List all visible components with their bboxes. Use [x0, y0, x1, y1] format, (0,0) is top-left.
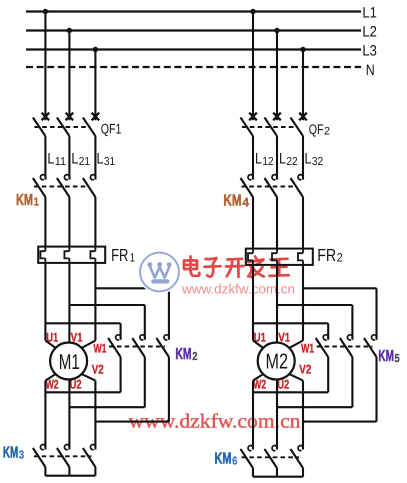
svg-text:L: L [305, 150, 312, 167]
svg-text:FR: FR [317, 245, 336, 265]
svg-text:KM: KM [16, 192, 33, 209]
svg-text:L: L [97, 150, 104, 167]
svg-text:6: 6 [232, 455, 237, 467]
svg-text:21: 21 [79, 156, 90, 168]
svg-text:KM: KM [378, 348, 394, 365]
svg-text:22: 22 [286, 156, 297, 168]
svg-text:2: 2 [324, 126, 330, 138]
svg-text:32: 32 [312, 156, 323, 168]
svg-text:L: L [47, 150, 54, 167]
svg-text:L2: L2 [362, 24, 377, 41]
svg-text:5: 5 [395, 353, 401, 365]
svg-text:V2: V2 [92, 363, 104, 377]
svg-text:KM: KM [215, 451, 232, 468]
svg-text:W1: W1 [94, 342, 107, 356]
svg-text:N: N [366, 62, 375, 79]
svg-text:KM: KM [3, 445, 18, 462]
svg-text:2: 2 [192, 351, 197, 363]
svg-text:QF1: QF1 [101, 121, 122, 137]
svg-text:KM: KM [175, 346, 191, 363]
svg-text:2: 2 [337, 251, 343, 265]
svg-text:W1: W1 [301, 342, 314, 356]
svg-text:L: L [255, 150, 262, 167]
svg-text:12: 12 [262, 156, 273, 168]
svg-text:V2: V2 [299, 363, 311, 377]
svg-text:L3: L3 [362, 43, 377, 60]
svg-text:11: 11 [55, 156, 66, 168]
svg-text:L: L [279, 150, 286, 167]
svg-text:1: 1 [130, 250, 136, 264]
svg-text:QF: QF [309, 121, 324, 137]
svg-text:1: 1 [34, 197, 40, 209]
svg-text:3: 3 [19, 450, 24, 462]
svg-text:M2: M2 [266, 350, 289, 374]
svg-text:M1: M1 [59, 350, 80, 374]
svg-text:31: 31 [104, 156, 115, 168]
svg-text:FR: FR [111, 245, 128, 265]
svg-text:L1: L1 [362, 5, 377, 22]
svg-text:4: 4 [242, 196, 249, 210]
svg-text:L: L [71, 150, 78, 167]
svg-text:KM: KM [223, 193, 241, 210]
